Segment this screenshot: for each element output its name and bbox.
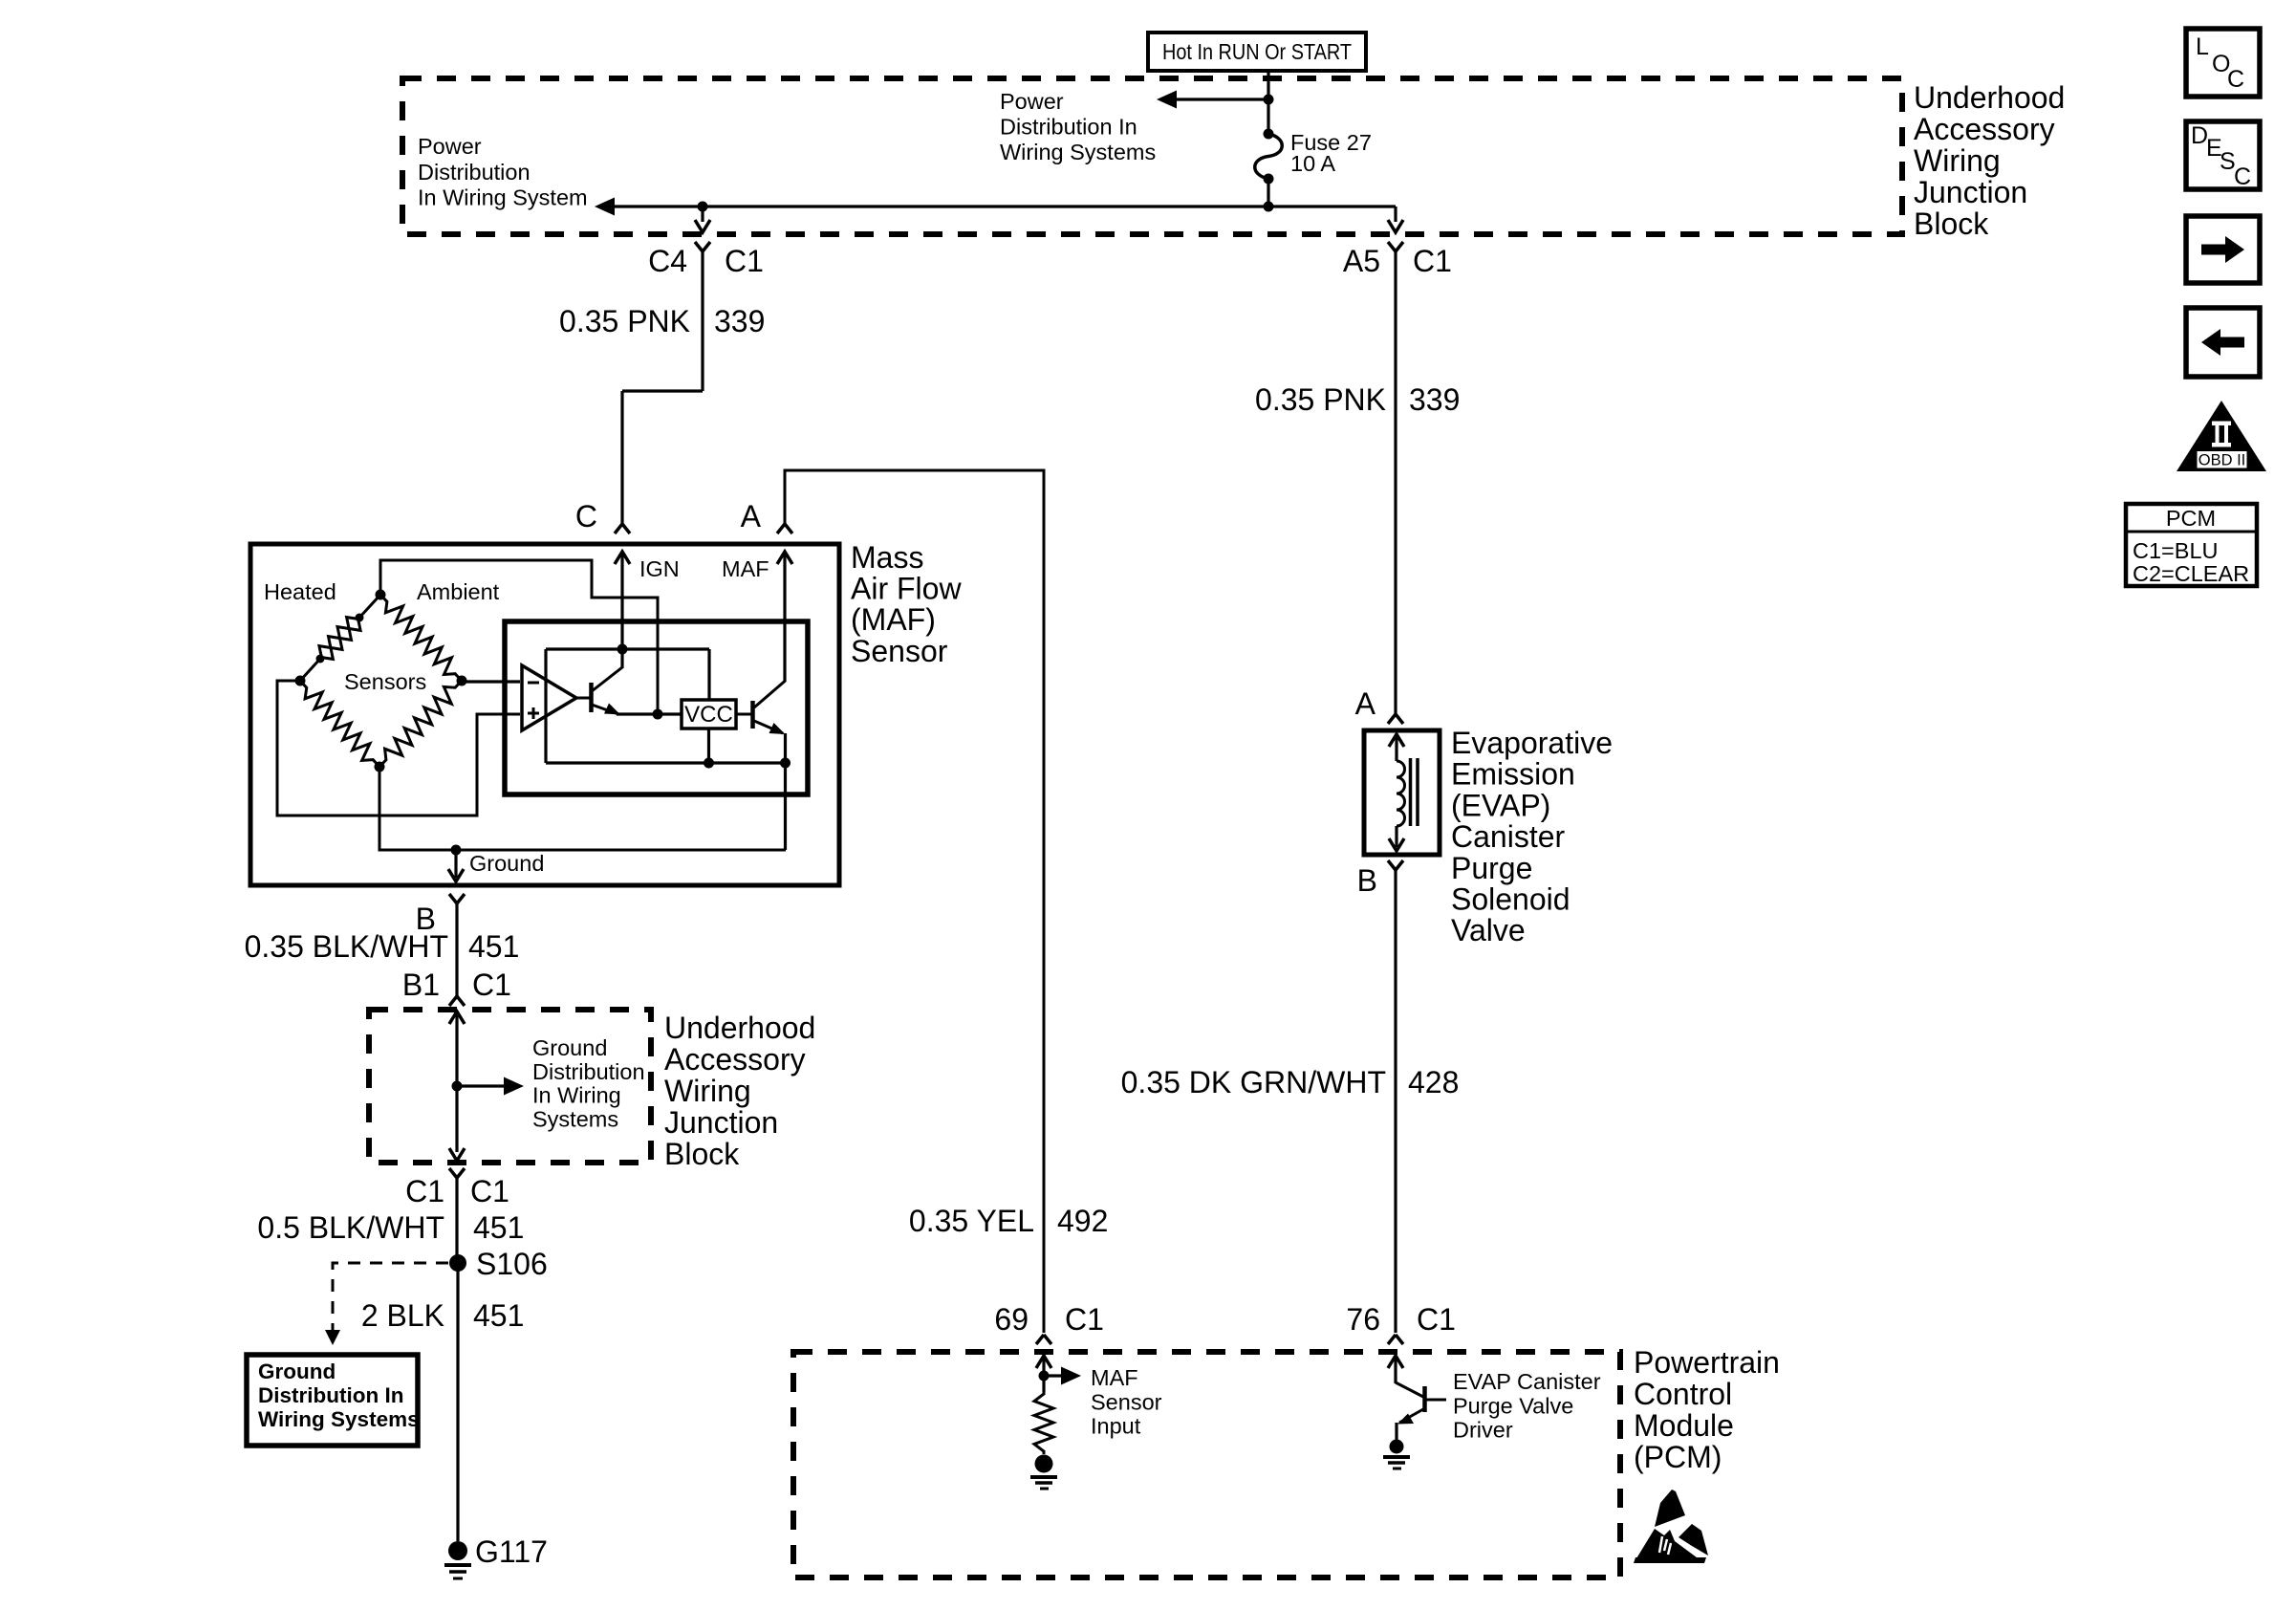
svg-text:451: 451 <box>468 929 519 964</box>
svg-text:OBD II: OBD II <box>2199 452 2246 469</box>
wire arrow left to Power Distribution In Wiring System <box>595 198 615 216</box>
ground distribution in wiring systems box <box>247 1355 418 1446</box>
svg-text:(MAF): (MAF) <box>851 602 936 637</box>
transistor Q2 <box>750 701 755 729</box>
svg-text:Wiring: Wiring <box>664 1074 751 1108</box>
svg-text:Mass: Mass <box>851 540 923 575</box>
connector pin B of MAF sensor <box>449 894 465 903</box>
ground G117 <box>448 1541 467 1560</box>
svg-text:451: 451 <box>473 1298 524 1333</box>
icon DESC box <box>2186 121 2260 189</box>
svg-text:0.5 BLK/WHT: 0.5 BLK/WHT <box>257 1210 444 1245</box>
svg-text:G117: G117 <box>475 1534 548 1569</box>
MAF internal amplifier box <box>505 621 808 794</box>
splice S106 <box>449 1254 466 1272</box>
connector pin B of EVAP valve <box>1388 860 1403 870</box>
svg-text:(PCM): (PCM) <box>1634 1440 1722 1474</box>
bridge corner nodes <box>376 590 386 600</box>
wire bridge right to op-amp minus input <box>462 680 520 683</box>
wire 0.35 PNK 339 to EVAP valve <box>1394 251 1397 714</box>
arrow to MAF sensor input label <box>1044 1374 1064 1377</box>
svg-text:L: L <box>2196 33 2209 60</box>
svg-text:A5: A5 <box>1343 244 1380 278</box>
svg-text:(EVAP): (EVAP) <box>1451 788 1550 822</box>
svg-text:Distribution: Distribution <box>418 160 531 185</box>
resistor bridge heated pair R1a <box>319 618 359 659</box>
resistor bottom-right <box>379 681 462 767</box>
svg-text:Air Flow: Air Flow <box>851 572 962 606</box>
svg-text:Power: Power <box>418 134 482 159</box>
svg-text:C1: C1 <box>1065 1302 1104 1337</box>
svg-text:C4: C4 <box>648 244 687 278</box>
svg-text:S106: S106 <box>476 1247 548 1281</box>
wire bridge top to internal supply <box>380 560 658 714</box>
underhood accessory wiring junction block dashed box <box>402 78 1902 234</box>
icon PCM connector legend box <box>2126 504 2257 586</box>
transistor Q3 EVAP driver <box>1396 1382 1423 1397</box>
svg-text:Canister: Canister <box>1451 819 1566 854</box>
wire VCC bottom <box>707 729 710 763</box>
svg-text:69: 69 <box>994 1302 1029 1337</box>
svg-text:492: 492 <box>1057 1204 1108 1238</box>
svg-text:Block: Block <box>1914 207 1989 241</box>
svg-text:IGN: IGN <box>639 556 680 581</box>
solenoid coil L1 <box>1389 734 1404 747</box>
svg-text:VCC: VCC <box>684 702 733 728</box>
icon OBD II triangle <box>2177 401 2266 471</box>
EVAP solenoid valve box <box>1364 730 1440 855</box>
svg-text:Driver: Driver <box>1453 1418 1513 1443</box>
arrow to ground distribution label <box>457 1084 507 1087</box>
underhood ground junction block dashed box <box>369 1010 651 1163</box>
svg-text:Ambient: Ambient <box>417 579 500 604</box>
wire MAF signal loop to PCM pin 69 <box>785 470 1044 1333</box>
node MAF sensor input <box>1039 1371 1050 1382</box>
svg-text:0.35 PNK: 0.35 PNK <box>559 304 690 338</box>
svg-text:0.35 PNK: 0.35 PNK <box>1255 382 1386 417</box>
connector B1 C1 <box>449 996 465 1006</box>
svg-text:Sensors: Sensors <box>344 669 426 694</box>
resistor MAF input pulldown <box>1034 1391 1053 1454</box>
svg-text:PCM: PCM <box>2166 506 2216 531</box>
svg-text:Ground: Ground <box>258 1360 336 1383</box>
ground arrow inside MAF box <box>454 850 457 878</box>
resistor bridge heated pair R1b <box>320 618 360 659</box>
ground junction block arrow in <box>449 1012 465 1024</box>
svg-text:B: B <box>1357 863 1377 898</box>
icon arrow left box <box>2186 308 2260 377</box>
wire emitter to VCC <box>617 712 682 715</box>
power source label box: Hot In RUN Or START <box>1148 33 1366 71</box>
svg-text:0.35 DK GRN/WHT: 0.35 DK GRN/WHT <box>1121 1065 1386 1099</box>
connector pin C of MAF sensor <box>615 524 630 533</box>
svg-text:339: 339 <box>1409 382 1460 417</box>
svg-text:Control: Control <box>1634 1377 1732 1411</box>
connector pin A of EVAP valve <box>1388 714 1403 724</box>
node ground branch <box>451 845 462 856</box>
svg-text:Hot In RUN Or START: Hot In RUN Or START <box>1162 39 1352 64</box>
connector 76 C1 <box>1388 1335 1403 1344</box>
ground MAF input <box>1035 1455 1053 1473</box>
svg-text:Distribution In: Distribution In <box>1000 114 1137 139</box>
wire 2 BLK 451 <box>456 1263 459 1541</box>
PCM pin 69 arrow in <box>1036 1356 1051 1368</box>
wire corner down to A5 with arrow <box>1394 207 1397 222</box>
wire arrow left to Power Distribution In Wiring Systems <box>1157 91 1177 109</box>
svg-text:Sensor: Sensor <box>1091 1389 1162 1414</box>
svg-text:C1: C1 <box>725 244 764 278</box>
pin A arrow into MAF sensor <box>777 552 792 564</box>
svg-text:Emission: Emission <box>1451 757 1575 792</box>
wire IGN internal junction <box>617 644 628 655</box>
connector 69 C1 <box>1036 1335 1051 1344</box>
wire fuse bottom to bus <box>1267 179 1269 207</box>
svg-text:0.35 YEL: 0.35 YEL <box>909 1204 1034 1238</box>
svg-text:Power: Power <box>1000 89 1064 114</box>
powertrain control module dashed box <box>793 1352 1620 1577</box>
resistor ambient top-right <box>380 595 462 681</box>
svg-text:Underhood: Underhood <box>1914 80 2065 115</box>
bus wire horizontal inside junction block <box>612 205 1396 207</box>
transistor Q1 <box>589 683 594 712</box>
svg-text:Solenoid: Solenoid <box>1451 882 1570 917</box>
svg-text:C1: C1 <box>1417 1302 1456 1337</box>
svg-text:Evaporative: Evaporative <box>1451 726 1613 760</box>
svg-text:10 A: 10 A <box>1290 151 1335 176</box>
svg-text:In Wiring System: In Wiring System <box>418 185 588 210</box>
svg-text:A: A <box>741 499 762 533</box>
connector C1 C1 <box>449 1168 465 1178</box>
svg-text:In Wiring: In Wiring <box>532 1083 621 1108</box>
svg-text:C1=BLU: C1=BLU <box>2133 538 2218 563</box>
svg-text:Powertrain: Powertrain <box>1634 1345 1780 1380</box>
svg-text:Accessory: Accessory <box>1914 112 2055 146</box>
svg-text:451: 451 <box>473 1210 524 1245</box>
MAF sensor outer box <box>250 544 839 885</box>
svg-text:Purge Valve: Purge Valve <box>1453 1393 1573 1418</box>
svg-text:Junction: Junction <box>1914 175 2027 209</box>
connector pin A of MAF sensor <box>777 524 792 533</box>
node junction above fuse <box>1264 95 1274 105</box>
node branch C4 <box>698 202 708 212</box>
ESD warning symbol <box>1655 1490 1685 1527</box>
svg-text:0.35 BLK/WHT: 0.35 BLK/WHT <box>245 929 448 964</box>
svg-text:Junction: Junction <box>664 1105 778 1140</box>
wire down to C4 with arrow <box>701 207 704 222</box>
svg-text:MAF: MAF <box>722 556 769 581</box>
wire bridge left to op-amp plus input <box>277 681 520 816</box>
PCM pin 76 arrow in <box>1388 1356 1403 1368</box>
svg-text:B1: B1 <box>402 968 440 1002</box>
wire internal bottom run <box>546 761 786 764</box>
svg-text:Wiring: Wiring <box>1914 143 2001 178</box>
svg-text:C: C <box>575 499 597 533</box>
wire 0.35 PNK 339 to MAF sensor <box>701 251 704 391</box>
svg-text:C1: C1 <box>472 968 511 1002</box>
wire bridge bottom to ground run <box>379 767 786 850</box>
svg-text:C1: C1 <box>470 1174 509 1208</box>
svg-text:2 BLK: 2 BLK <box>361 1298 444 1333</box>
svg-text:Ground: Ground <box>469 851 544 876</box>
svg-text:Distribution In: Distribution In <box>258 1383 403 1407</box>
icon arrow right box <box>2186 216 2260 283</box>
svg-text:Purge: Purge <box>1451 851 1532 885</box>
connector A5 C1 <box>1388 242 1403 251</box>
icon LOC box <box>2186 29 2260 97</box>
svg-text:Distribution: Distribution <box>532 1059 645 1084</box>
ground EVAP driver <box>1390 1440 1404 1454</box>
svg-text:339: 339 <box>714 304 765 338</box>
svg-text:Accessory: Accessory <box>664 1042 806 1077</box>
solenoid core <box>1409 758 1413 826</box>
node ground distribution branch <box>452 1081 463 1092</box>
wire MAF output down <box>784 763 787 850</box>
wire 0.35 BLK/WHT 451 <box>455 903 458 996</box>
svg-text:C: C <box>2234 163 2251 190</box>
svg-text:Underhood: Underhood <box>664 1011 815 1045</box>
svg-text:Module: Module <box>1634 1408 1734 1443</box>
svg-text:Ground: Ground <box>532 1035 607 1060</box>
op-amp U1 <box>522 665 576 730</box>
svg-text:Block: Block <box>664 1137 740 1171</box>
dashed branch to ground distribution <box>333 1263 448 1330</box>
resistor bottom-left <box>300 681 379 767</box>
wire 0.35 DK GRN/WHT 428 <box>1394 870 1397 1333</box>
svg-text:MAF: MAF <box>1091 1365 1138 1390</box>
svg-text:C1: C1 <box>1413 244 1452 278</box>
svg-text:428: 428 <box>1408 1065 1459 1099</box>
svg-text:Heated: Heated <box>264 579 336 604</box>
svg-text:C1: C1 <box>405 1174 444 1208</box>
svg-text:C: C <box>2227 66 2244 93</box>
pin C arrow into MAF sensor <box>615 552 630 564</box>
svg-text:Systems: Systems <box>532 1106 618 1131</box>
svg-text:Wiring Systems: Wiring Systems <box>1000 140 1156 164</box>
svg-text:Valve: Valve <box>1451 913 1526 947</box>
connector C4 C1 <box>695 242 710 251</box>
svg-text:EVAP Canister: EVAP Canister <box>1453 1369 1601 1394</box>
voltage reference VCC box <box>682 700 736 729</box>
wire from Hot In RUN box down to fuse <box>1267 71 1269 134</box>
svg-text:Sensor: Sensor <box>851 634 948 668</box>
svg-text:A: A <box>1355 686 1376 721</box>
wire down to C1 exit <box>455 1086 458 1152</box>
svg-text:Wiring Systems: Wiring Systems <box>258 1407 420 1431</box>
svg-text:C2=CLEAR: C2=CLEAR <box>2133 561 2249 586</box>
svg-text:Input: Input <box>1091 1414 1141 1439</box>
svg-text:76: 76 <box>1346 1302 1380 1337</box>
fuse F27 Fuse 27 10 A <box>1255 134 1283 179</box>
wire 0.5 BLK/WHT 451 <box>455 1178 458 1263</box>
